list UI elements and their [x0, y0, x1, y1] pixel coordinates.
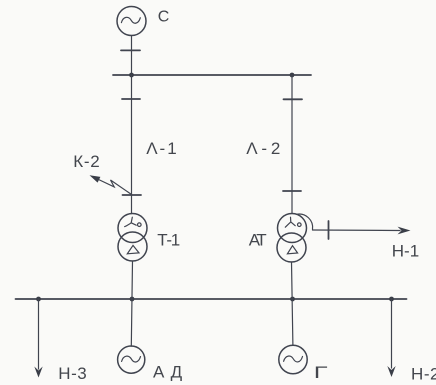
T-1 wye symbol with neutral [125, 217, 141, 226]
disconnector tick on L-1 bottom (fault point) [123, 194, 142, 196]
wire to load H-1 [313, 229, 401, 232]
svg-text:С: С [158, 8, 170, 25]
junction dot H-2 [389, 297, 394, 302]
load H-2 arrowhead [387, 366, 395, 377]
svg-text:Н-1: Н-1 [392, 242, 420, 261]
svg-text:Н-2: Н-2 [411, 364, 436, 383]
source C tilde [121, 17, 140, 23]
svg-text:К-2: К-2 [73, 152, 100, 171]
wire C to top busbar [131, 36, 133, 76]
disconnector tick on H-1 line [328, 221, 330, 239]
fault K-2 lightning arrow shaft [98, 179, 132, 195]
svg-text:Т-1: Т-1 [157, 230, 180, 249]
fault K-2 arrowhead [90, 175, 101, 182]
autotransformer AT LV circle [277, 233, 306, 262]
autotransformer AT HV circle [278, 214, 307, 243]
wire line L-1 (busbar to T-1) [131, 75, 133, 214]
disconnector tick on L-1 top [122, 98, 140, 100]
load H-2 arrow shaft [391, 299, 393, 368]
wire AT to generator G [292, 262, 293, 345]
junction dot H-3 [36, 297, 41, 302]
AT wye symbol with neutral [285, 217, 301, 227]
T-1 delta symbol [127, 245, 139, 253]
load H-3 arrow shaft [38, 299, 40, 369]
junction dot left on top busbar [129, 73, 134, 78]
generator G tilde [284, 356, 303, 362]
svg-text:Н-3: Н-3 [58, 364, 86, 383]
transformer T-1 LV winding circle [118, 232, 147, 261]
junction dot right on top busbar [290, 73, 295, 78]
svg-text:Λ-2: Λ-2 [246, 139, 280, 158]
junction dot AD feeder [130, 297, 135, 302]
source C circle [117, 7, 146, 36]
junction dot G feeder [290, 297, 295, 302]
bottom busbar [16, 298, 407, 300]
svg-text:АТ: АТ [249, 230, 267, 249]
motor AD circle [118, 346, 145, 373]
wire line L-2 (busbar to AT) [291, 75, 293, 214]
svg-text:Λ-1: Λ-1 [146, 139, 177, 158]
arrowhead H-1 [398, 227, 411, 235]
wire T-1 to motor AD [131, 261, 132, 346]
disconnector tick on L-2 bottom [283, 190, 301, 192]
AT delta symbol [287, 246, 297, 254]
disconnector tick on L-2 top [284, 98, 303, 100]
load H-3 arrowhead [34, 367, 42, 378]
motor AD tilde [122, 356, 141, 362]
disconnector tick on C feeder [121, 49, 140, 51]
generator G circle [279, 345, 307, 373]
top busbar [113, 74, 311, 76]
transformer T-1 HV winding circle [118, 214, 147, 243]
svg-text:Г: Г [314, 363, 328, 383]
AT tertiary tap hook arc [297, 214, 313, 229]
